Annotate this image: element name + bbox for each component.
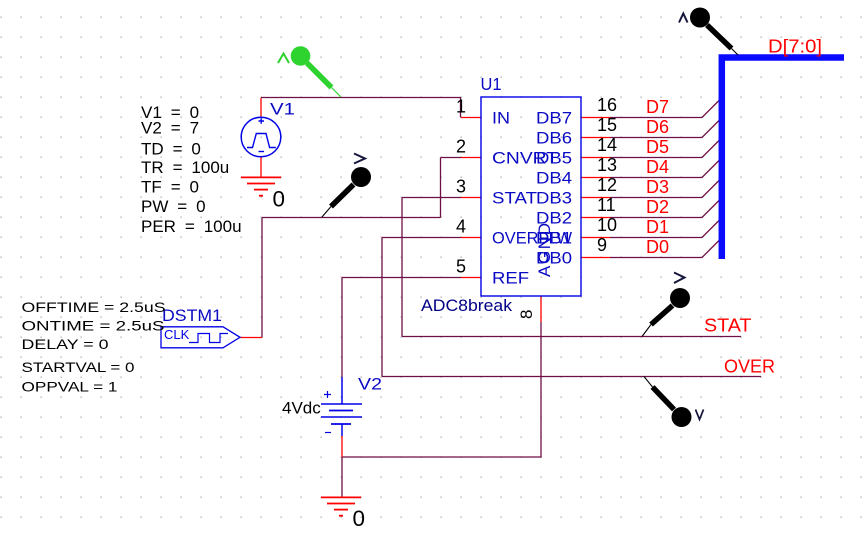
- pin stub 15 DB6: [581, 137, 610, 139]
- svg-text:V2 = 7: V2 = 7: [141, 119, 199, 138]
- svg-text:16: 16: [597, 95, 617, 115]
- svg-text:10: 10: [597, 215, 617, 235]
- pin stub 13 DB4: [581, 177, 610, 179]
- svg-text:15: 15: [597, 115, 617, 135]
- wire pin 5 REF horizontal: [342, 277, 461, 279]
- svg-text:D1: D1: [646, 217, 669, 237]
- wire pin 2 CNVRT horizontal: [441, 157, 462, 159]
- wire REF to V2 plus: [341, 278, 343, 378]
- svg-text:TD = 0: TD = 0: [141, 140, 201, 159]
- svg-text:DSTM1: DSTM1: [162, 306, 222, 325]
- wire OVER vertical drop: [381, 238, 383, 377]
- svg-text:U1: U1: [481, 74, 502, 94]
- svg-text:D4: D4: [646, 157, 669, 177]
- svg-text:OFFTIME = 2.5uS: OFFTIME = 2.5uS: [22, 299, 166, 315]
- ground 0 under V2: [321, 497, 361, 515]
- pin stub 5 REF: [461, 277, 481, 279]
- svg-text:12: 12: [597, 175, 617, 195]
- wire D3 with bus entry: [610, 179, 721, 198]
- svg-text:DB6: DB6: [536, 129, 572, 148]
- svg-text:D[7:0]: D[7:0]: [768, 37, 822, 57]
- svg-text:13: 13: [597, 155, 617, 175]
- svg-text:D5: D5: [646, 137, 669, 157]
- pin stub 12 DB3: [581, 197, 610, 199]
- wire D6 with bus entry: [610, 119, 721, 138]
- svg-text:CLK: CLK: [164, 327, 190, 342]
- svg-text:OPPVAL = 1: OPPVAL = 1: [22, 379, 118, 395]
- svg-text:D2: D2: [646, 197, 669, 217]
- svg-text:4: 4: [456, 217, 466, 237]
- svg-text:STAT: STAT: [704, 316, 752, 336]
- pin stub 3 STAT: [461, 197, 481, 199]
- svg-text:D7: D7: [646, 97, 669, 117]
- svg-text:STAT: STAT: [492, 189, 537, 208]
- pin stub V2 minus: [341, 436, 343, 457]
- voltage source V2 battery: [321, 377, 362, 436]
- svg-text:V2: V2: [358, 375, 382, 394]
- svg-text:0: 0: [353, 506, 366, 531]
- wire D0 with bus entry: [610, 239, 721, 258]
- wire clock row y=217: [262, 217, 441, 219]
- pin stub 4 OVERFLW: [461, 237, 481, 239]
- bus D[7:0]: [722, 58, 844, 260]
- voltage source V1 VPULSE: [241, 117, 281, 157]
- probe marker V black on STAT: [642, 273, 690, 337]
- pin stub 10 DB1: [581, 237, 610, 239]
- svg-text:D0: D0: [646, 237, 669, 257]
- svg-text:AGND: AGND: [535, 223, 554, 277]
- svg-text:3: 3: [456, 177, 466, 197]
- svg-text:TR = 100u: TR = 100u: [141, 158, 229, 177]
- svg-text:14: 14: [597, 135, 617, 155]
- wire STAT vertical drop: [401, 198, 403, 337]
- wire D4 with bus entry: [610, 159, 721, 178]
- svg-text:PW = 0: PW = 0: [141, 197, 206, 216]
- svg-text:5: 5: [456, 257, 466, 277]
- wire D2 with bus entry: [610, 199, 721, 218]
- wire V2 minus to AGND pin: [342, 322, 541, 457]
- svg-text:ADC8break: ADC8break: [421, 296, 513, 315]
- wire D7 with bus entry: [610, 99, 721, 118]
- svg-text:DB7: DB7: [536, 109, 572, 128]
- pin stub 2 CNVRT: [461, 157, 481, 159]
- svg-text:DB4: DB4: [536, 169, 572, 188]
- wire pin 3 STAT horizontal: [402, 197, 461, 199]
- svg-text:8: 8: [517, 310, 536, 319]
- svg-text:PER = 100u: PER = 100u: [141, 217, 242, 236]
- ground 0 under V1: [241, 177, 281, 195]
- svg-text:OVER: OVER: [724, 357, 775, 377]
- wire pin 4 OVERFLW horizontal: [382, 237, 461, 239]
- svg-text:1: 1: [456, 97, 466, 117]
- svg-text:D6: D6: [646, 117, 669, 137]
- svg-text:DB5: DB5: [536, 149, 572, 168]
- svg-text:DELAY = 0: DELAY = 0: [22, 336, 109, 352]
- wire D5 with bus entry: [610, 139, 721, 158]
- probe marker V green on V1 net: [278, 46, 341, 97]
- svg-text:V1: V1: [270, 100, 295, 119]
- probe marker V black on clock row: [322, 154, 371, 218]
- op-amp U1 ADC8break body: [481, 97, 581, 296]
- wire pin 2 vertical drop: [440, 158, 442, 218]
- svg-text:IN: IN: [492, 109, 510, 128]
- svg-text:REF: REF: [492, 269, 529, 288]
- digital stimulus DSTM1 CLK: [161, 327, 240, 348]
- pin stub 16 DB7: [581, 117, 610, 119]
- svg-text:9: 9: [597, 235, 607, 255]
- svg-text:11: 11: [597, 195, 616, 215]
- pin stub DSTM1 out: [241, 337, 263, 339]
- svg-text:STARTVAL = 0: STARTVAL = 0: [22, 359, 135, 375]
- probe marker V black on OVER: [644, 377, 704, 428]
- pin stub 11 DB2: [581, 217, 610, 219]
- wire V2 minus to ground: [341, 457, 343, 497]
- wire net OVER: [382, 376, 761, 378]
- svg-text:4Vdc: 4Vdc: [282, 399, 321, 418]
- svg-text:TF = 0: TF = 0: [141, 178, 199, 197]
- pin stub V1 minus: [260, 157, 262, 177]
- pin stub 8 AGND: [540, 296, 542, 322]
- wire DSTM1 vertical riser: [261, 218, 263, 338]
- wire V1 top to pin 1 IN: [261, 98, 461, 118]
- pin stub 9 DB0: [581, 257, 610, 259]
- svg-text:2: 2: [456, 137, 466, 157]
- wire D1 with bus entry: [610, 219, 721, 238]
- svg-text:0: 0: [273, 187, 286, 212]
- pin stub 1 IN: [461, 117, 481, 119]
- DSTM1 parameter text block: [22, 299, 166, 395]
- probe marker V black on bus: [679, 8, 738, 56]
- svg-text:ONTIME = 2.5uS: ONTIME = 2.5uS: [22, 318, 165, 334]
- wire net STAT: [402, 336, 741, 338]
- svg-text:DB3: DB3: [536, 189, 572, 208]
- V1 parameter text block: [141, 103, 242, 236]
- svg-text:D3: D3: [646, 177, 669, 197]
- pin stub 14 DB5: [581, 157, 610, 159]
- pin stub V1 plus: [260, 98, 262, 117]
